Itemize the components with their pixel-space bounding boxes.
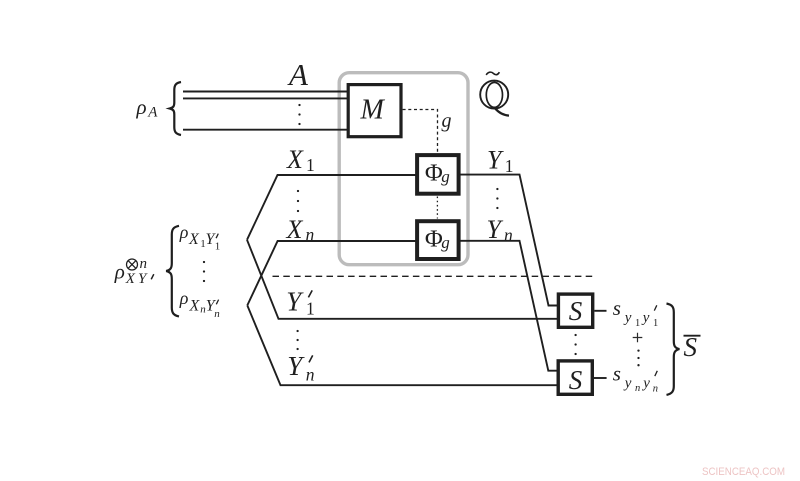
svg-text:X: X [286,145,304,174]
svg-text:1: 1 [505,156,514,176]
svg-text:X: X [125,271,136,287]
svg-text:1: 1 [306,298,315,318]
svg-text:y: y [623,376,632,392]
wire A bottom line [183,129,348,131]
svg-text:g: g [441,233,450,252]
dots under A wires [298,104,300,106]
svg-text:A: A [287,57,309,92]
svg-text:n: n [214,308,220,320]
wire Y1prime [247,240,557,319]
box M [348,85,401,137]
wire A double line second [183,97,348,99]
svg-text:y: y [641,310,650,326]
svg-text:n: n [306,225,315,245]
svg-text:1: 1 [215,241,221,253]
wire Ynprime [247,305,557,385]
svg-text:SCIENCEAQ.COM: SCIENCEAQ.COM [702,466,785,478]
svg-text:S: S [684,332,698,362]
svg-text:1: 1 [653,318,658,329]
wire S1 output tick [594,310,606,312]
svg-text:S: S [569,296,583,326]
svg-text:X: X [189,298,201,315]
svg-text:A: A [147,105,158,121]
svg-text:s: s [613,361,621,385]
svg-text:ρ: ρ [114,259,125,283]
dots under plus [637,349,639,351]
wire Yn [460,241,558,371]
brace S bar right [667,304,680,395]
box S2 [558,361,592,394]
svg-text:Φ: Φ [425,226,443,253]
dots between X1 and Xn [297,190,299,192]
dots between Y1' and Yn' [296,330,298,332]
dots between Y1 and Yn [496,188,498,190]
dots between S boxes [574,334,576,336]
prime of XY' [151,274,154,279]
svg-text:M: M [360,95,386,126]
svg-text:s: s [613,296,621,320]
wire Xn [247,241,417,305]
wire Y1 [460,175,558,306]
svg-text:Φ: Φ [425,160,443,187]
wire S2 output tick [594,377,607,379]
brace rho_XYn big [166,226,179,317]
svg-text:X: X [286,215,304,244]
svg-text:ρ: ρ [136,95,147,119]
svg-text:y: y [641,376,650,392]
box Q-tilde rounded gray enclosure [339,73,468,265]
svg-text:g: g [442,110,452,132]
svg-text:n: n [306,365,315,385]
svg-text:n: n [140,256,148,272]
svg-text:g: g [441,167,450,186]
svg-text:y: y [623,310,632,326]
box S1 [558,294,592,327]
dots between rho labels [203,261,205,263]
svg-text:ρ: ρ [179,288,189,308]
svg-text:Y: Y [487,146,504,175]
tensor product symbol [127,259,138,270]
wire dotted between Phi boxes [436,197,438,219]
label S bar [684,335,701,337]
svg-text:S: S [569,365,583,395]
box Phi_g2 [417,221,459,259]
label Q-tilde blackboard [480,72,509,115]
svg-text:X: X [188,231,200,248]
wire dashed separator line [273,275,596,277]
wire X1 [247,175,417,240]
svg-text:n: n [635,383,640,394]
svg-text:n: n [653,383,658,394]
svg-text:n: n [504,225,513,245]
brace rho_A [170,82,181,135]
label plus [633,333,643,343]
box Phi_g1 [417,155,459,194]
svg-text:1: 1 [306,155,315,175]
svg-text:1: 1 [635,318,640,329]
wire A double line top [183,91,348,93]
svg-text:ρ: ρ [179,222,189,242]
svg-text:Y: Y [487,215,504,244]
wire g dashed from M to Phi_g1 [403,110,438,153]
